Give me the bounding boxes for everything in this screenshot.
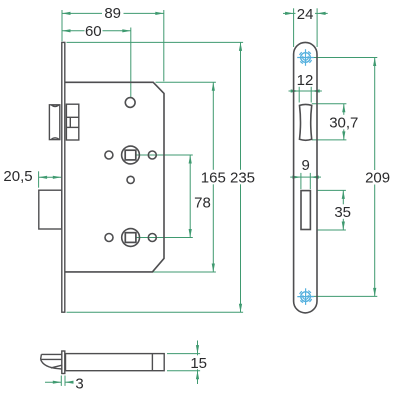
deadbolt cutout side view [301, 191, 310, 230]
svg-text:9: 9 [302, 157, 310, 174]
svg-text:78: 78 [194, 194, 211, 211]
bottom view latch bar divider [151, 354, 153, 371]
svg-text:24: 24 [297, 6, 314, 23]
svg-text:30,7: 30,7 [329, 114, 358, 131]
lock case outline [65, 82, 164, 272]
lower right small hole [148, 234, 156, 242]
latch body behind faceplate [66, 104, 78, 140]
screw symbol top [297, 49, 314, 66]
svg-text:35: 35 [334, 204, 351, 221]
lower left small hole [105, 234, 113, 242]
text backgrounds [102, 7, 124, 21]
dimension 15 [167, 341, 200, 385]
dimension 24 [283, 8, 328, 47]
top hole [125, 98, 135, 108]
upper left small hole [105, 151, 113, 159]
dimension 165 line [153, 82, 216, 272]
dimension 20,5 [39, 171, 62, 187]
svg-text:15: 15 [190, 355, 207, 372]
svg-text:89: 89 [104, 5, 121, 22]
extension line left of 89/60 [61, 10, 63, 41]
middle small hole [127, 176, 134, 183]
lower follower square [125, 233, 136, 243]
svg-text:3: 3 [75, 376, 83, 393]
bottom view latch bar [66, 354, 165, 371]
dimension 209 [306, 58, 377, 297]
dimension 60 line [62, 29, 131, 32]
dimension 35 [318, 190, 346, 230]
svg-text:60: 60 [85, 23, 102, 40]
side view faceplate outline [294, 42, 317, 313]
dimension 3 [45, 376, 74, 386]
extension line 89 right down to case top [163, 10, 165, 81]
bottom view latch head [41, 354, 62, 369]
upper right small hole [148, 151, 156, 159]
svg-text:209: 209 [365, 170, 390, 187]
screw symbol bottom [297, 288, 314, 305]
dimension 12 [289, 87, 322, 103]
extension line 60 down to top hole [130, 28, 132, 98]
upper follower circle [122, 146, 140, 164]
faceplate front view (vertical strip) [62, 42, 65, 312]
deadbolt front view [39, 190, 62, 229]
latch bolt front view [49, 105, 59, 140]
dimension 235 line [67, 42, 244, 312]
svg-text:12: 12 [297, 72, 314, 89]
dimension 9 [290, 173, 321, 189]
dimension 89 line [62, 12, 164, 15]
svg-text:165 235: 165 235 [201, 169, 255, 186]
dimension 78 line [136, 155, 193, 238]
svg-text:20,5: 20,5 [3, 168, 32, 185]
bottom view faceplate section [62, 351, 65, 374]
dimension 30,7 [312, 104, 347, 140]
latch cutout side view [300, 104, 312, 140]
upper follower square [125, 150, 136, 160]
lower follower circle [122, 229, 140, 247]
